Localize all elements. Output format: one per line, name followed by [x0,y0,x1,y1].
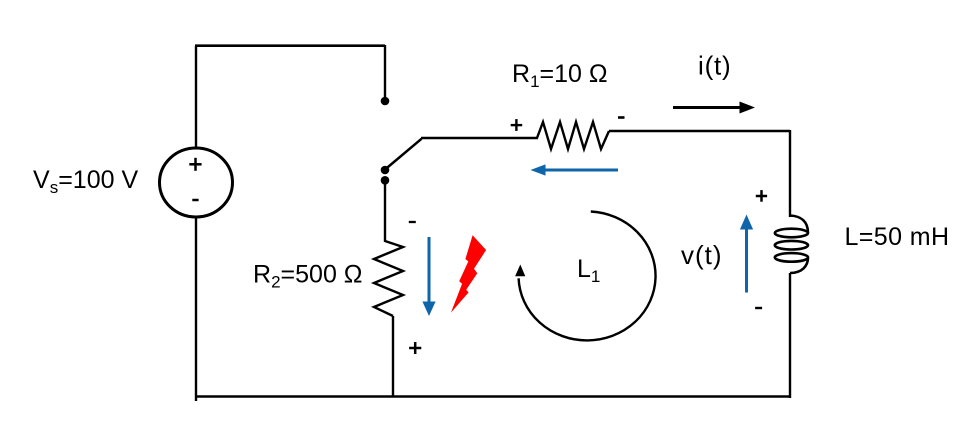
minus sign below v(t) arrow [755,307,762,309]
red lightning bolt [451,235,486,312]
wire switch to R2 [384,181,386,242]
inductor L1 coil [775,216,808,274]
plus sign above v(t) arrow [756,190,767,202]
wire switch to R1 [421,137,538,139]
svg-text:i(t): i(t) [698,51,732,81]
junction dot upper switch contact [381,97,390,106]
wire source bottom vertical [195,217,197,401]
blue arrow v(t) up [740,215,753,293]
resistor R2 zigzag [374,241,403,316]
minus sign above R2 [409,221,416,223]
svg-text:R1=10 Ω: R1=10 Ω [512,60,608,91]
junction dot switch pivot upper [381,166,390,175]
plus sign left of R1 [511,119,523,131]
switch S1 blade [385,139,422,170]
wire right vertical lower [789,273,791,398]
svg-text:R2=500 Ω: R2=500 Ω [253,261,362,292]
svg-text:Vs=100 V: Vs=100 V [33,166,138,197]
wire R2 to bottom [392,316,394,397]
blue arrow under R1 pointing left [531,164,619,175]
loop L1 circular arrow [515,212,655,341]
minus sign right of R1 [618,116,625,119]
resistor R1 zigzag [537,122,609,149]
wire top horizontal [195,44,385,47]
svg-text:L=50 mH: L=50 mH [845,223,950,251]
voltage source plus sign [189,158,201,171]
blue arrow current through R2 down [422,237,435,316]
wire source top vertical [195,46,197,148]
plus sign below R2 [409,342,421,354]
junction dot switch pivot lower [381,176,390,185]
svg-text:v(t): v(t) [681,240,723,270]
voltage source minus sign [192,199,198,202]
wire R1 to right corner [609,130,790,132]
current arrow i(t) [673,102,755,114]
wire right vertical upper [789,130,791,217]
wire bottom horizontal [195,395,791,397]
voltage source V1 circle [160,148,233,217]
wire switch upper contact vertical [384,45,386,98]
